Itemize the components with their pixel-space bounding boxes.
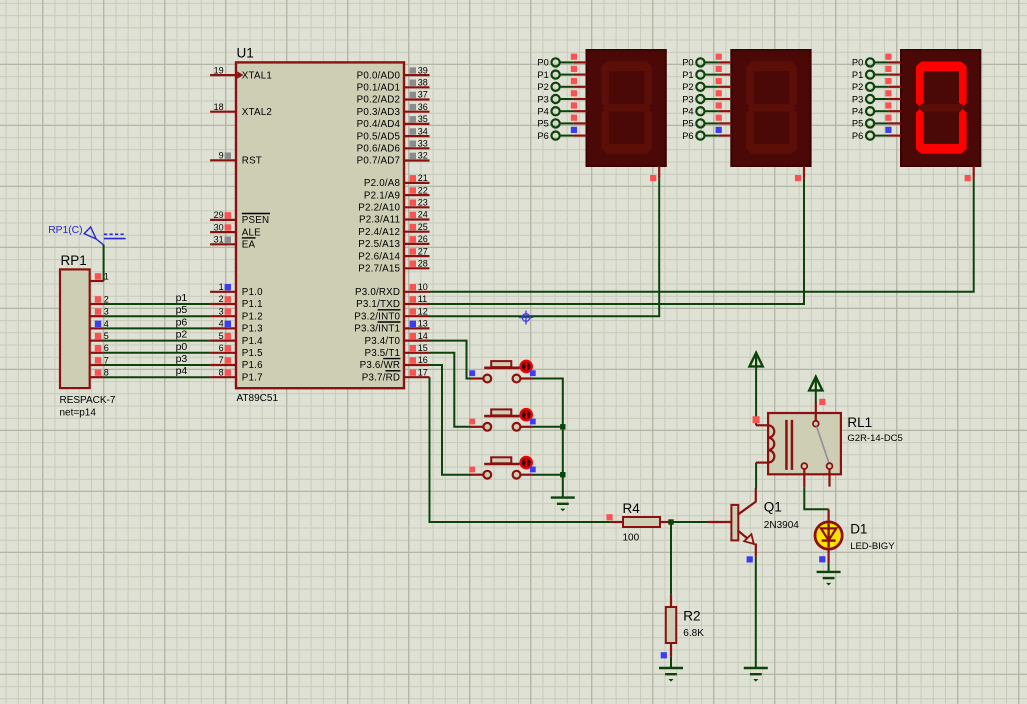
svg-text:P3: P3	[852, 94, 863, 104]
svg-text:6.8K: 6.8K	[683, 628, 704, 639]
svg-text:5: 5	[104, 331, 109, 341]
display DSP1 common pin	[658, 166, 660, 179]
display DSP2 segment b	[789, 63, 797, 107]
display DSP1 terminal P5	[537, 115, 586, 129]
U1 pin 7 (P1.6)	[210, 355, 263, 371]
display DSP2 terminal P3	[682, 90, 731, 104]
U1 pin 18 (XTAL2)	[210, 102, 272, 118]
svg-text:P2: P2	[537, 82, 548, 92]
LED D1	[815, 509, 842, 564]
display DSP1 terminal P4	[537, 102, 586, 116]
U1 pin 26 (P2.5/A13)	[358, 234, 429, 250]
RP1 pin 3	[90, 307, 109, 317]
wire junction to Q1 base	[671, 521, 708, 523]
svg-text:RST: RST	[242, 156, 262, 167]
svg-text:35: 35	[418, 114, 428, 124]
wire U1 pin14 to button SW1	[430, 341, 471, 379]
svg-text:P2.2/A10: P2.2/A10	[358, 203, 400, 214]
U1 pin 6 (P1.5)	[210, 343, 263, 359]
display DSP3 common pin state square	[965, 175, 971, 181]
U1 pin 38 (P0.1/AD1)	[357, 78, 430, 94]
display DSP2 segment c	[789, 109, 797, 153]
U1 pin 27 (P2.6/A14)	[358, 246, 429, 262]
svg-text:11: 11	[418, 294, 427, 304]
svg-text:23: 23	[418, 198, 428, 208]
svg-text:36: 36	[418, 102, 428, 112]
button SW2 left state square	[469, 419, 475, 425]
svg-text:P3.4/T0: P3.4/T0	[364, 336, 400, 347]
svg-text:P6: P6	[852, 131, 863, 141]
display DSP2 segment g	[747, 104, 795, 111]
U1 pin 9 (RST)	[210, 151, 262, 167]
svg-text:13: 13	[418, 319, 428, 329]
display DSP2 terminal P4	[682, 102, 731, 116]
svg-text:25: 25	[418, 222, 428, 232]
svg-text:4: 4	[219, 319, 224, 329]
svg-text:15: 15	[418, 343, 428, 353]
wire D1 to ground	[828, 564, 830, 572]
svg-text:P1.3: P1.3	[242, 324, 263, 335]
svg-text:37: 37	[418, 90, 428, 100]
RL1 coil	[756, 425, 774, 462]
U1 pin 5 (P1.4)	[210, 331, 263, 347]
U1 pin 10 (P3.0/RXD)	[355, 282, 429, 298]
svg-text:5: 5	[219, 331, 224, 341]
svg-text:ALE: ALE	[242, 227, 261, 238]
svg-text:P2.0/A8: P2.0/A8	[364, 178, 401, 189]
IC U1 body	[236, 62, 404, 388]
svg-text:6: 6	[104, 343, 109, 353]
wire RP1 to U1 (net p0)	[104, 352, 211, 354]
svg-text:21: 21	[418, 173, 428, 183]
U1 pin 21 (P2.0/A8)	[364, 173, 430, 189]
RL1 NO contact (dangling)	[827, 463, 833, 486]
svg-text:P0.7/AD7: P0.7/AD7	[357, 156, 401, 167]
svg-text:8: 8	[104, 368, 109, 378]
net flag arrow	[84, 227, 103, 245]
RL1 switch lever	[817, 427, 829, 463]
svg-text:7: 7	[219, 355, 224, 365]
button SW2 actuator	[521, 409, 532, 420]
push button SW3	[470, 457, 533, 478]
svg-text:8: 8	[219, 367, 224, 377]
svg-text:P6: P6	[682, 131, 693, 141]
svg-text:9: 9	[219, 151, 224, 161]
button SW3 actuator	[521, 457, 532, 468]
svg-text:AT89C51: AT89C51	[237, 393, 279, 404]
svg-text:P1.7: P1.7	[242, 372, 263, 383]
svg-text:net=p14: net=p14	[60, 408, 97, 419]
svg-text:P1: P1	[682, 70, 693, 80]
wire SW2 right to trunk	[533, 426, 563, 428]
svg-text:P6: P6	[537, 131, 548, 141]
svg-text:G2R-14-DC5: G2R-14-DC5	[847, 433, 902, 444]
svg-text:P0.0/AD0: P0.0/AD0	[357, 70, 401, 81]
svg-text:p2: p2	[176, 329, 188, 341]
svg-text:39: 39	[418, 65, 428, 75]
display DSP2 terminal P1	[682, 66, 731, 80]
resistor R2	[666, 595, 676, 657]
U1 pin 8 (P1.7)	[210, 367, 263, 383]
button SW1 left state square	[469, 370, 475, 376]
U1 pin 32 (P0.7/AD7)	[357, 151, 430, 167]
7-segment display DSP3 body	[901, 50, 980, 166]
svg-text:28: 28	[418, 259, 428, 269]
U1 pin 16 (P3.6/WR)	[360, 355, 430, 371]
svg-text:6: 6	[219, 343, 224, 353]
display DSP3 terminal P5	[852, 115, 901, 129]
svg-text:P0.5/AD5: P0.5/AD5	[357, 131, 401, 142]
svg-text:P5: P5	[537, 119, 548, 129]
wire RP1 to U1 (net p6)	[104, 327, 211, 329]
RL1 NC contact	[801, 463, 807, 488]
display DSP3 terminal P4	[852, 102, 901, 116]
RP1 pin 8	[90, 368, 109, 378]
svg-text:P4: P4	[682, 107, 693, 117]
U1 pin 35 (P0.4/AD4)	[357, 114, 430, 130]
transistor Q1 2N3904	[708, 488, 756, 557]
display DSP1 terminal P6	[537, 127, 586, 141]
wire relay coil bottom to Q1 collector	[755, 463, 757, 489]
RP1 pin 5	[90, 331, 109, 341]
relay RL1 body	[768, 413, 841, 474]
display DSP2 terminal P6	[682, 127, 731, 141]
U1 XTAL1 clock mark	[237, 71, 243, 78]
resistor pack RP1 body	[60, 269, 90, 388]
svg-text:P2.7/A15: P2.7/A15	[358, 264, 400, 275]
RP1 pin 7	[90, 355, 109, 365]
junction R4/R2/Q1 base	[668, 519, 673, 524]
resistor R4	[611, 517, 671, 527]
svg-text:PSEN: PSEN	[242, 215, 269, 226]
svg-text:P1.1: P1.1	[242, 299, 263, 310]
ground symbol (buttons)	[551, 498, 575, 512]
button SW2 right state square	[530, 419, 536, 425]
U1 pin 24 (P2.3/A11)	[359, 210, 429, 226]
svg-text:P1.4: P1.4	[242, 336, 263, 347]
svg-text:p1: p1	[176, 292, 188, 304]
display DSP2 common pin	[803, 166, 805, 179]
wire RP1 pin1 up to label flag	[103, 245, 105, 281]
U1 pin 34 (P0.5/AD5)	[357, 126, 430, 142]
display DSP1 segment g	[603, 104, 651, 111]
display DSP3 common pin	[973, 166, 975, 179]
wire U1 pin16 to button SW3	[430, 365, 471, 475]
display DSP2 segment d	[747, 144, 797, 154]
wire junction down to R2	[670, 522, 672, 595]
svg-text:1: 1	[219, 282, 224, 292]
junction SW3/trunk	[560, 472, 565, 477]
wire RP1 to U1 (net p3)	[104, 364, 211, 366]
svg-text:P5: P5	[852, 119, 863, 129]
svg-text:P3.3/INT1: P3.3/INT1	[354, 324, 400, 335]
U1 pin 31 (EA)	[210, 235, 256, 251]
svg-text:P3: P3	[537, 94, 548, 104]
svg-text:26: 26	[418, 234, 428, 244]
U1 pin 19 (XTAL1)	[210, 65, 272, 81]
U1 pin 36 (P0.3/AD3)	[357, 102, 430, 118]
display DSP2 terminal P0	[682, 54, 731, 68]
svg-text:4: 4	[104, 319, 109, 329]
display DSP2 segment f	[746, 63, 754, 107]
svg-text:30: 30	[214, 222, 224, 232]
7-segment display DSP2 body	[731, 50, 810, 166]
display DSP2 common pin state square	[795, 175, 801, 181]
display DSP3 segment a	[917, 62, 967, 72]
svg-text:p6: p6	[176, 316, 188, 328]
button SW1 actuator	[521, 361, 532, 372]
display DSP3 segment f	[916, 63, 924, 107]
svg-text:p0: p0	[176, 341, 188, 353]
svg-text:P4: P4	[852, 107, 863, 117]
svg-text:P0: P0	[852, 58, 863, 68]
wire RL1 NC contact to LED D1	[804, 488, 828, 510]
7-segment display DSP1 body	[587, 50, 666, 166]
svg-text:P3.2/INT0: P3.2/INT0	[354, 311, 400, 322]
svg-text:24: 24	[418, 210, 428, 220]
origin marker (blue crosshair)	[519, 311, 533, 325]
RL1 core bars	[785, 420, 793, 470]
svg-text:P3: P3	[682, 94, 693, 104]
U1 pin 25 (P2.4/A12)	[358, 222, 429, 238]
U1 pin 15 (P3.5/T1)	[364, 343, 429, 359]
svg-text:P3.5/T1: P3.5/T1	[364, 348, 400, 359]
svg-text:p5: p5	[176, 304, 188, 316]
svg-text:P1.0: P1.0	[242, 287, 263, 298]
U1 pin 4 (P1.3)	[210, 319, 263, 335]
wire U1 pin12 to display DSP1	[430, 179, 660, 317]
svg-text:P1.6: P1.6	[242, 360, 263, 371]
svg-text:3: 3	[219, 306, 224, 316]
svg-text:R2: R2	[683, 609, 700, 624]
svg-text:P0.3/AD3: P0.3/AD3	[357, 107, 401, 118]
svg-text:7: 7	[104, 355, 109, 365]
R2 bottom state square	[661, 652, 667, 658]
ground symbol (D1)	[817, 572, 841, 586]
svg-text:P2: P2	[852, 82, 863, 92]
svg-text:2: 2	[104, 294, 109, 304]
svg-text:P1: P1	[537, 70, 548, 80]
Q1 emitter state square	[747, 556, 753, 562]
svg-text:RP1(C): RP1(C)	[48, 225, 82, 236]
display DSP1 common pin state square	[650, 175, 656, 181]
wire RP1 to U1 (net p4)	[104, 376, 211, 378]
U1 pin 30 (ALE)	[210, 222, 261, 238]
display DSP1 terminal P3	[537, 90, 586, 104]
svg-text:2: 2	[219, 294, 224, 304]
U1 pin 3 (P1.2)	[210, 306, 263, 322]
svg-text:18: 18	[214, 102, 224, 112]
junction SW2/trunk	[560, 424, 565, 429]
svg-text:P2.5/A13: P2.5/A13	[358, 239, 400, 250]
wire power to relay common	[815, 390, 817, 402]
svg-text:17: 17	[418, 367, 428, 377]
svg-text:10: 10	[418, 282, 428, 292]
U1 pin 12 (P3.2/INT0)	[354, 306, 429, 322]
display DSP2 terminal P2	[682, 78, 731, 92]
ground symbol (Q1 emitter)	[744, 668, 768, 682]
svg-text:P2.3/A11: P2.3/A11	[359, 215, 400, 226]
net flag dashes	[104, 233, 126, 235]
svg-text:2N3904: 2N3904	[764, 520, 799, 531]
display DSP2 segment e	[746, 109, 754, 153]
U1 pin 13 (P3.3/INT1)	[354, 319, 429, 335]
display DSP3 segment c	[959, 109, 967, 153]
display DSP3 segment b	[959, 63, 967, 107]
wire R2 to ground	[670, 657, 672, 668]
U1 pin 22 (P2.1/A9)	[364, 185, 430, 201]
button SW3 right state square	[530, 467, 536, 473]
display DSP2 segment a	[747, 62, 797, 72]
svg-text:R4: R4	[623, 501, 641, 516]
relay contact state square	[819, 399, 825, 405]
svg-text:P1.2: P1.2	[242, 311, 263, 322]
display DSP3 segment e	[916, 109, 924, 153]
svg-text:P3.1/TXD: P3.1/TXD	[356, 299, 400, 310]
svg-text:D1: D1	[850, 522, 867, 537]
U1 pin 14 (P3.4/T0)	[364, 331, 429, 347]
svg-text:19: 19	[214, 65, 224, 75]
svg-text:P0: P0	[682, 58, 693, 68]
svg-text:U1: U1	[237, 46, 254, 61]
svg-text:RP1: RP1	[61, 253, 87, 268]
svg-text:RESPACK-7: RESPACK-7	[60, 395, 116, 406]
RP1 pin 4	[90, 319, 109, 329]
svg-text:LED-BIGY: LED-BIGY	[850, 541, 895, 552]
wire power to relay coil	[755, 366, 757, 425]
svg-text:38: 38	[418, 78, 428, 88]
R4 left state square	[606, 514, 612, 520]
display DSP1 segment f	[601, 63, 609, 107]
wire buttons common to ground	[533, 379, 563, 498]
U1 pin 11 (P3.1/TXD)	[356, 294, 429, 310]
svg-text:22: 22	[418, 185, 428, 195]
display DSP1 terminal P1	[537, 66, 586, 80]
push button SW1	[470, 361, 533, 382]
svg-text:16: 16	[418, 355, 428, 365]
svg-text:RL1: RL1	[847, 415, 872, 430]
relay coil top state square	[753, 416, 760, 423]
RP1 pin 6	[90, 343, 109, 353]
button SW1 right state square	[530, 370, 536, 376]
wire RP1 to U1 (net p2)	[104, 340, 211, 342]
svg-text:P1: P1	[852, 70, 863, 80]
svg-text:P2.1/A9: P2.1/A9	[364, 190, 400, 201]
wire U1 pin15 to button SW2	[430, 353, 471, 427]
svg-text:XTAL1: XTAL1	[242, 70, 272, 81]
display DSP3 terminal P3	[852, 90, 901, 104]
display DSP1 terminal P0	[537, 54, 586, 68]
D1 bottom state square	[819, 556, 825, 562]
wire U1 pin17 to R4	[430, 377, 611, 522]
svg-text:P2.6/A14: P2.6/A14	[358, 251, 400, 262]
svg-text:P4: P4	[537, 107, 548, 117]
svg-text:P5: P5	[682, 119, 693, 129]
U1 pin 29 (PSEN)	[210, 210, 270, 226]
display DSP1 segment b	[645, 63, 653, 107]
display DSP1 segment a	[602, 62, 652, 72]
svg-text:27: 27	[418, 246, 428, 256]
svg-text:P3.6/WR: P3.6/WR	[360, 360, 401, 371]
U1 pin 17 (P3.7/RD)	[362, 367, 430, 383]
display DSP1 segment e	[601, 109, 609, 153]
U1 pin 23 (P2.2/A10)	[358, 198, 429, 214]
wire RP1 to U1 (net p5)	[104, 315, 211, 317]
svg-text:P1.5: P1.5	[242, 348, 263, 359]
RP1 pin 1	[90, 271, 109, 281]
svg-text:12: 12	[418, 306, 428, 316]
svg-text:P0.4/AD4: P0.4/AD4	[357, 119, 401, 130]
display DSP2 terminal P5	[682, 115, 731, 129]
wire RP1 to U1 (net p1)	[104, 303, 211, 305]
U1 pin 33 (P0.6/AD6)	[357, 139, 430, 155]
svg-text:Q1: Q1	[764, 500, 782, 515]
U1 pin 37 (P0.2/AD2)	[357, 90, 430, 106]
svg-text:100: 100	[623, 533, 640, 544]
power terminal (relay contact)	[809, 377, 822, 391]
display DSP3 terminal P6	[852, 127, 901, 141]
svg-text:P0.6/AD6: P0.6/AD6	[357, 144, 401, 155]
svg-text:P2: P2	[682, 82, 693, 92]
U1 pin 2 (P1.1)	[210, 294, 263, 310]
power terminal (relay coil)	[750, 353, 763, 367]
push button SW2	[470, 409, 533, 430]
U1 pin 1 (P1.0)	[210, 282, 263, 298]
svg-text:P3.0/RXD: P3.0/RXD	[355, 287, 400, 298]
svg-text:P3.7/RD: P3.7/RD	[362, 372, 400, 383]
svg-text:P0.1/AD1: P0.1/AD1	[357, 83, 401, 94]
svg-text:P2.4/A12: P2.4/A12	[358, 227, 400, 238]
svg-text:31: 31	[214, 235, 224, 245]
display DSP3 segment d	[917, 144, 967, 154]
wire SW3 right to trunk	[533, 474, 563, 476]
svg-text:p4: p4	[176, 365, 188, 377]
svg-text:P0: P0	[537, 58, 548, 68]
svg-text:3: 3	[104, 307, 109, 317]
display DSP1 segment d	[602, 144, 652, 154]
display DSP1 segment c	[645, 109, 653, 153]
svg-text:p3: p3	[176, 353, 188, 365]
wire Q1 emitter to ground	[755, 557, 757, 668]
svg-text:XTAL2: XTAL2	[242, 107, 272, 118]
svg-text:14: 14	[418, 331, 428, 341]
RP1 pin 2	[90, 294, 109, 304]
display DSP1 terminal P2	[537, 78, 586, 92]
svg-text:29: 29	[214, 210, 224, 220]
wire U1 pin11 to display DSP2	[430, 179, 805, 304]
RL1 common contact	[813, 402, 819, 427]
U1 pin 28 (P2.7/A15)	[358, 259, 429, 275]
display DSP3 segment g	[917, 104, 965, 111]
button SW3 left state square	[469, 467, 475, 473]
display DSP3 terminal P0	[852, 54, 901, 68]
svg-text:EA: EA	[242, 240, 256, 251]
svg-text:32: 32	[418, 151, 428, 161]
display DSP3 terminal P1	[852, 66, 901, 80]
wire U1 pin10 to display DSP3	[430, 179, 974, 292]
svg-text:33: 33	[418, 139, 428, 149]
ground symbol (R2)	[659, 668, 683, 682]
display DSP3 terminal P2	[852, 78, 901, 92]
U1 pin 39 (P0.0/AD0)	[357, 65, 430, 81]
svg-text:P0.2/AD2: P0.2/AD2	[357, 95, 401, 106]
svg-text:34: 34	[418, 126, 428, 136]
